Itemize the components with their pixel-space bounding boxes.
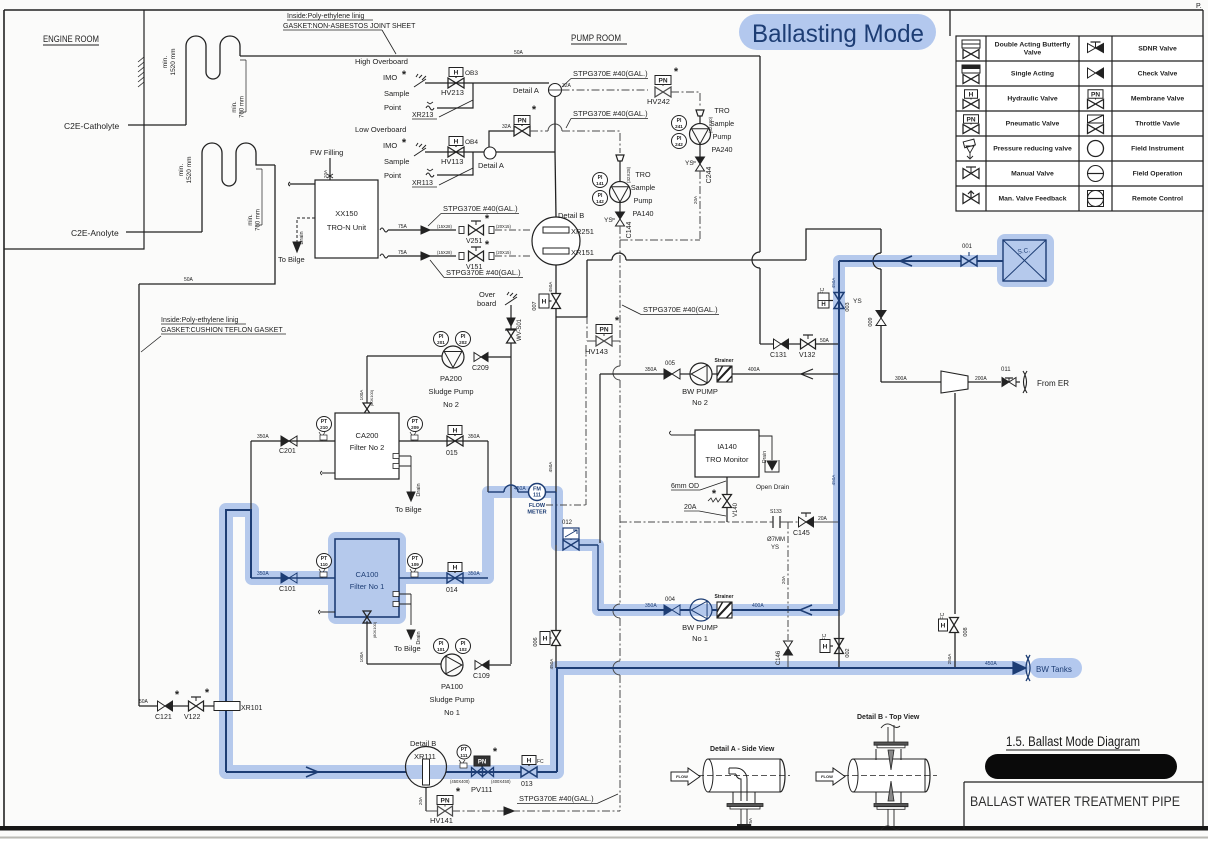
overboard break symbol high [414, 74, 426, 87]
wire high overboard line [425, 82, 549, 84]
svg-text:001: 001 [962, 244, 973, 250]
wire BW tanks line blue [556, 667, 1014, 669]
svg-text:760 mm: 760 mm [256, 209, 262, 231]
svg-text:BW PUMP: BW PUMP [682, 387, 718, 396]
svg-text:20A: 20A [684, 504, 697, 511]
wire flushing drop from top line [759, 56, 761, 252]
sea chest S.C. box [1003, 240, 1046, 281]
svg-text:GASKET:CUSHION TEFLON GASKET: GASKET:CUSHION TEFLON GASKET [161, 327, 283, 334]
instrument PI241 [672, 116, 687, 131]
wire CA100 sludge suction [366, 621, 368, 664]
svg-text:High Overboard: High Overboard [355, 57, 408, 66]
svg-text:100A: 100A [359, 651, 364, 663]
svg-text:TRO-N Unit: TRO-N Unit [327, 223, 367, 232]
wire flowmeter line blue [488, 491, 504, 493]
svg-text:BW Tanks: BW Tanks [1036, 665, 1072, 674]
svg-text:(80X100): (80X100) [369, 389, 374, 406]
wire riser Detail A to Detail B [554, 97, 556, 153]
wire blue corner up to BW tanks [556, 668, 558, 772]
wire catholyte expansion loop [186, 36, 240, 125]
flow arrow BW tanks [1013, 662, 1026, 674]
svg-text:Strainer: Strainer [715, 358, 734, 364]
svg-text:STPG370E #40(GAL.): STPG370E #40(GAL.) [643, 305, 718, 314]
XX150 outlet V151 line 75A [380, 254, 388, 258]
svg-text:C101: C101 [279, 586, 296, 593]
wire bottom treated line blue [226, 771, 406, 773]
svg-text:32A: 32A [562, 83, 572, 89]
wire blue riser x839 [838, 261, 840, 610]
svg-text:PA100: PA100 [441, 682, 463, 691]
svg-text:min.: min. [178, 164, 185, 176]
redacted black bar [985, 754, 1177, 779]
svg-text:Inside:Poly-ethylene linig: Inside:Poly-ethylene linig [287, 13, 365, 20]
valve HV143 pneumatic [596, 325, 612, 334]
svg-text:METER: METER [527, 510, 546, 516]
svg-text:002: 002 [845, 648, 851, 657]
highlight band ballast flow path 2 (filter to BW tanks) [226, 510, 1022, 772]
svg-text:From ER: From ER [1037, 379, 1069, 388]
svg-text:H: H [543, 635, 548, 642]
svg-text:Single Acting: Single Acting [1011, 71, 1054, 78]
wire C144 down [619, 226, 621, 240]
svg-text:Filter No 1: Filter No 1 [350, 582, 385, 591]
legend single acting [962, 65, 980, 73]
svg-text:Ø7MM: Ø7MM [767, 537, 785, 543]
detail B quill marks [888, 750, 894, 770]
flow arrow BW1 suction [800, 605, 812, 615]
wire C201 inlet line [251, 440, 335, 442]
svg-text:209: 209 [411, 425, 419, 430]
IA140 left connection [670, 431, 696, 435]
svg-text:PA240: PA240 [711, 145, 732, 154]
svg-text:PA140: PA140 [632, 209, 653, 218]
valve C244 [699, 145, 701, 158]
instrument PI142 [593, 191, 608, 206]
svg-text:Point: Point [384, 103, 402, 112]
svg-text:450A: 450A [831, 474, 836, 486]
svg-text:C131: C131 [770, 352, 787, 359]
instrument PT110 [317, 554, 332, 569]
filter CA100 box [335, 539, 399, 617]
legend table frame [949, 10, 951, 36]
svg-text:*: * [674, 66, 679, 78]
wire riser 006 to BW tanks junction [555, 646, 557, 669]
pump PA200 sludge [442, 346, 464, 368]
svg-text:009: 009 [868, 317, 874, 326]
svg-text:Sample: Sample [710, 119, 734, 128]
title block box [964, 782, 1203, 829]
svg-text:75A: 75A [748, 817, 753, 826]
wire HV242 to PA240 [671, 92, 700, 108]
svg-text:STPG370E #40(GAL.): STPG370E #40(GAL.) [446, 268, 521, 277]
svg-text:75A: 75A [398, 224, 408, 230]
instrument PI102 [456, 639, 471, 654]
svg-text:*: * [493, 746, 498, 758]
svg-text:IMO: IMO [383, 141, 397, 150]
svg-text:No 1: No 1 [444, 708, 460, 717]
wire sludge pump No2 line [367, 355, 442, 357]
detail B top branch [876, 749, 901, 760]
svg-text:50A: 50A [184, 277, 194, 283]
svg-text:H: H [542, 298, 547, 305]
legend throttle valve [1088, 115, 1104, 123]
svg-text:210: 210 [320, 425, 328, 430]
svg-text:V132: V132 [799, 352, 815, 359]
svg-text:Detail B: Detail B [410, 739, 436, 748]
svg-text:PV111: PV111 [471, 785, 492, 794]
svg-text:*: * [175, 689, 180, 701]
svg-text:Field Instrument: Field Instrument [1131, 146, 1185, 153]
svg-text:450A: 450A [514, 486, 526, 492]
valve C209 check [474, 353, 481, 362]
svg-text:20A: 20A [818, 516, 828, 522]
pump BW No2 [690, 363, 712, 385]
svg-text:Membrane Valve: Membrane Valve [1131, 96, 1184, 103]
detail A flange [727, 804, 763, 807]
wire blue elbow to bottom line [226, 510, 251, 772]
svg-text:350A: 350A [468, 571, 480, 577]
svg-text:110: 110 [320, 562, 328, 567]
svg-text:Sample: Sample [384, 89, 409, 98]
svg-text:Drain: Drain [416, 483, 422, 496]
svg-text:C209: C209 [472, 365, 489, 372]
instrument PI101 [434, 639, 449, 654]
svg-text:ENGINE ROOM: ENGINE ROOM [43, 34, 99, 44]
svg-text:(400X450): (400X450) [491, 779, 511, 784]
valve C131 check [774, 339, 782, 349]
svg-text:HV143: HV143 [585, 347, 608, 356]
svg-text:HV141: HV141 [430, 816, 453, 825]
valve CA200 top drain [363, 403, 371, 415]
svg-text:FC: FC [537, 759, 544, 765]
valve V132 manual [801, 339, 816, 349]
valve V122 manual [189, 701, 204, 711]
wire riser 007 to tee [555, 309, 557, 318]
valve HV141 pneumatic [437, 796, 453, 805]
svg-text:(15X28): (15X28) [437, 224, 453, 229]
svg-text:*: * [615, 315, 620, 327]
svg-text:FC: FC [940, 612, 946, 619]
svg-text:50A: 50A [820, 338, 830, 344]
svg-text:450A: 450A [548, 461, 553, 473]
svg-text:201: 201 [437, 340, 445, 345]
svg-text:111: 111 [460, 753, 468, 758]
wire stripping header y260 [587, 259, 612, 261]
svg-text:350A: 350A [645, 603, 657, 609]
svg-text:1520 mm: 1520 mm [186, 156, 193, 183]
svg-text:BW PUMP: BW PUMP [682, 623, 718, 632]
svg-text:250A: 250A [947, 653, 952, 665]
svg-text:C146: C146 [776, 650, 782, 665]
svg-text:350A: 350A [645, 367, 657, 373]
svg-text:013: 013 [521, 781, 533, 788]
svg-text:Pneumatic Valve: Pneumatic Valve [1006, 121, 1060, 128]
valve C146 check [784, 641, 793, 648]
legend membrane valve [1088, 90, 1103, 99]
legend manual valve [963, 169, 979, 179]
svg-text:50A: 50A [139, 699, 149, 705]
instrument PT111 [457, 745, 471, 759]
wire C244 down to junction [699, 171, 701, 240]
wire left suction riser [138, 284, 140, 706]
XX150 outlet V251 line 75A [380, 228, 388, 232]
svg-text:109: 109 [411, 562, 419, 567]
wire TRO return manifold [620, 239, 700, 241]
wire eductor drop x881 [880, 229, 882, 253]
svg-text:C2E-Catholyte: C2E-Catholyte [64, 121, 120, 131]
valve HV213 hydraulic [449, 68, 463, 77]
svg-text:Throttle Vavle: Throttle Vavle [1135, 121, 1180, 128]
svg-text:To Bilge: To Bilge [395, 505, 422, 514]
wire riser down to flowmeter junction [555, 317, 557, 492]
engine room wall hatching [138, 57, 144, 62]
svg-text:H: H [454, 69, 459, 76]
svg-text:400A: 400A [752, 603, 764, 609]
svg-text:008: 008 [963, 627, 969, 636]
pump PA240 TRO sample [696, 110, 704, 116]
svg-text:102: 102 [459, 647, 467, 652]
svg-text:Drain: Drain [416, 631, 422, 644]
svg-text:FLOW: FLOW [676, 774, 688, 779]
filter CA100 drain stubs [399, 594, 411, 625]
legend field instrument [1088, 141, 1104, 157]
valve C101 check [281, 573, 289, 583]
wire flush line to blue riser [760, 343, 773, 345]
From ER break [1023, 371, 1027, 393]
svg-text:(32X28): (32X28) [626, 166, 631, 183]
svg-text:HV242: HV242 [647, 97, 670, 106]
wire sea chest suction blue [977, 260, 1003, 262]
BW Tanks label pill [1030, 658, 1082, 678]
svg-text:P.: P. [1196, 3, 1202, 10]
instrument PT109 [408, 554, 423, 569]
svg-text:Detail B - Top View: Detail B - Top View [857, 714, 920, 721]
valve 007 hydraulic [539, 294, 549, 308]
valve HV113 hydraulic [449, 137, 463, 146]
svg-text:450A: 450A [985, 661, 997, 667]
svg-text:012: 012 [562, 520, 573, 526]
svg-text:Ballasting Mode: Ballasting Mode [752, 20, 924, 48]
valve C144 [619, 203, 621, 213]
wire CA200 sludge suction [366, 356, 368, 403]
svg-text:H: H [941, 622, 946, 629]
wire eductor discharge down [954, 393, 956, 614]
valve 015 hydraulic [399, 440, 488, 442]
flow arrow bottom [306, 767, 318, 777]
svg-text:BALLAST WATER TREATMENT PIPE: BALLAST WATER TREATMENT PIPE [970, 793, 1180, 809]
svg-text:PN: PN [440, 797, 449, 804]
svg-text:OB3: OB3 [465, 70, 478, 77]
svg-text:STPG370E #40(GAL.): STPG370E #40(GAL.) [573, 69, 648, 78]
svg-text:007: 007 [532, 301, 538, 310]
svg-text:200A: 200A [975, 376, 987, 382]
svg-text:20A: 20A [418, 796, 423, 805]
svg-text:Double Acting Butterfly: Double Acting Butterfly [995, 42, 1071, 49]
pump PA100 sludge [441, 654, 463, 676]
svg-text:241: 241 [675, 124, 683, 129]
svg-text:FLOW: FLOW [529, 503, 546, 509]
detail B pipe body [853, 759, 925, 792]
svg-text:(450X400): (450X400) [450, 779, 470, 784]
valve 006 hydraulic [540, 632, 550, 645]
svg-text:760 mm: 760 mm [240, 96, 246, 118]
valve V151 manual [469, 251, 484, 261]
svg-text:HV213: HV213 [441, 88, 464, 97]
svg-text:(20X15): (20X15) [496, 224, 512, 229]
svg-text:20A: 20A [781, 575, 786, 584]
svg-text:Detail A: Detail A [478, 161, 504, 170]
legend field operation [1088, 166, 1104, 182]
svg-text:(15X28): (15X28) [437, 250, 453, 255]
svg-text:450A: 450A [549, 658, 554, 670]
pump BW No1 [690, 599, 712, 621]
svg-text:Valve: Valve [1024, 50, 1042, 57]
page border [4, 9, 1203, 11]
engine room box [4, 10, 144, 249]
svg-text:XR151: XR151 [571, 248, 594, 257]
valve HV142 pneumatic [514, 116, 530, 125]
pump PA140 TRO sample [616, 155, 624, 161]
svg-text:V140: V140 [733, 502, 739, 517]
svg-text:Detail A - Side View: Detail A - Side View [710, 746, 775, 753]
svg-text:H: H [454, 138, 459, 145]
svg-text:014: 014 [446, 587, 458, 594]
wire HV142 to PA140 dash with hop [530, 130, 548, 132]
node Detail A circle low [484, 147, 496, 159]
wire overboard riser down to sludge discharge [510, 343, 512, 664]
svg-text:Remote Control: Remote Control [1132, 196, 1183, 203]
svg-text:XR101: XR101 [241, 705, 263, 712]
svg-text:Detail B: Detail B [558, 211, 584, 220]
wire BW pump No2 standby drop [599, 374, 601, 543]
svg-text:011: 011 [1001, 367, 1011, 373]
svg-text:C144: C144 [626, 222, 633, 239]
svg-text:Sample: Sample [384, 157, 409, 166]
instrument FM111 flow meter [529, 484, 546, 501]
svg-text:100A: 100A [359, 389, 364, 401]
svg-text:*: * [205, 687, 210, 699]
svg-text:XR213: XR213 [412, 112, 434, 119]
valve C109 check [475, 661, 482, 670]
filter CA200 drain stubs [399, 456, 411, 492]
svg-text:Open Drain: Open Drain [756, 484, 790, 491]
svg-text:111: 111 [533, 493, 541, 499]
svg-text:XR113: XR113 [412, 180, 433, 187]
wire anolyte drop to 50A header [139, 165, 275, 284]
valve C145 check [786, 521, 798, 523]
valve C201 check [281, 436, 289, 446]
svg-text:450A: 450A [548, 281, 553, 293]
svg-text:V122: V122 [184, 714, 200, 721]
legend double acting butterfly valve [962, 40, 980, 48]
svg-text:PN: PN [1091, 91, 1100, 98]
svg-text:H: H [821, 302, 825, 308]
dimension 760mm anolyte [256, 169, 262, 225]
svg-text:YS: YS [685, 160, 694, 167]
svg-text:300A: 300A [895, 376, 907, 382]
svg-text:V251: V251 [466, 238, 482, 245]
svg-text:H: H [969, 91, 974, 98]
valve 014 hydraulic [399, 577, 488, 579]
valve PV111 pneumatic [474, 756, 490, 766]
wire flowmeter instrument dash [585, 345, 587, 505]
svg-text:1520 mm: 1520 mm [170, 48, 177, 75]
svg-text:003: 003 [845, 302, 851, 311]
wire eductor to 011 [968, 381, 1001, 383]
svg-text:S133: S133 [770, 509, 782, 515]
wire tee to stripping header [556, 260, 587, 317]
svg-text:min.: min. [248, 214, 254, 226]
svg-text:Hydraulic Valve: Hydraulic Valve [1007, 96, 1057, 103]
svg-text:WV-S01: WV-S01 [517, 318, 523, 341]
dimension 760mm catholyte [240, 60, 246, 112]
instrument PT209 [408, 417, 423, 432]
legend SDNR valve [1088, 44, 1096, 53]
svg-text:STPG370E #40(GAL.): STPG370E #40(GAL.) [519, 794, 594, 803]
svg-text:(80X100): (80X100) [372, 621, 377, 638]
svg-text:*: * [485, 213, 490, 225]
svg-text:PA200: PA200 [440, 374, 462, 383]
svg-text:Pump: Pump [634, 196, 653, 205]
svg-text:142: 142 [596, 199, 604, 204]
svg-text:350A: 350A [468, 434, 480, 440]
svg-text:75A: 75A [398, 250, 408, 256]
svg-text:Sludge Pump: Sludge Pump [428, 387, 473, 396]
wire C101 inlet line [251, 577, 335, 579]
wire low overboard line [425, 151, 484, 153]
valve 013 hydraulic FC [522, 756, 536, 765]
svg-text:004: 004 [665, 597, 676, 603]
filter CA100 left connection [319, 610, 336, 614]
svg-text:PUMP ROOM: PUMP ROOM [571, 33, 621, 43]
svg-text:400A: 400A [748, 367, 760, 373]
svg-text:board: board [477, 299, 496, 308]
highlight band ballast flow path 1 (sea chest to filter) [400, 261, 1046, 610]
instrument PI202 [456, 332, 471, 347]
svg-text:C244: C244 [706, 167, 713, 184]
valve V251 manual [469, 225, 484, 235]
legend check valve [1088, 68, 1096, 78]
svg-text:HV113: HV113 [441, 157, 463, 166]
svg-text:No 2: No 2 [692, 398, 708, 407]
wire 015 to flowmeter drop [487, 441, 489, 492]
wire BW pump No2 suction [600, 373, 664, 375]
flow arrow BW2 suction [801, 369, 813, 379]
wire 32A dash line to HV242 [562, 89, 649, 91]
svg-text:202: 202 [459, 340, 467, 345]
node Detail A circle top [549, 84, 562, 97]
filter CA200 left connection [321, 471, 336, 475]
eductor [941, 371, 968, 393]
legend remote control [1088, 191, 1104, 207]
svg-text:005: 005 [665, 361, 676, 367]
wire anolyte expansion loop [202, 143, 275, 232]
svg-text:To Bilge: To Bilge [394, 644, 421, 653]
svg-text:PN: PN [599, 326, 608, 333]
flow arrow sea chest [900, 256, 912, 266]
wire top 50A main line [240, 55, 760, 57]
svg-text:IMO: IMO [383, 73, 397, 82]
svg-text:Low Overboard: Low Overboard [355, 125, 406, 134]
svg-text:141: 141 [596, 181, 604, 186]
svg-text:H: H [527, 757, 532, 764]
valve C121 check [158, 701, 166, 711]
inline XR101 [214, 702, 240, 711]
svg-text:min.: min. [232, 101, 238, 113]
svg-text:FW Filling: FW Filling [310, 148, 343, 157]
wire TRO monitor sample header [620, 521, 770, 523]
svg-text:Detail A: Detail A [513, 86, 539, 95]
